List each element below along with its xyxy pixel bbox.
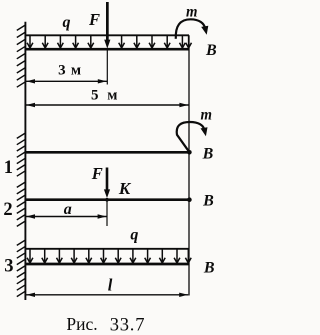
svg-text:2: 2 bbox=[3, 200, 12, 220]
svg-text:Рис.: Рис. bbox=[66, 314, 97, 334]
moment arc top bbox=[176, 19, 205, 39]
svg-text:m: m bbox=[200, 107, 212, 124]
beam 3 bbox=[25, 263, 189, 266]
svg-text:3 м: 3 м bbox=[58, 63, 82, 79]
right extension line bbox=[188, 35, 190, 295]
beam 1 end dot bbox=[187, 150, 192, 155]
wall line left bbox=[24, 22, 26, 300]
wall hatching support 2 bbox=[17, 182, 26, 226]
distributed load arrows top bbox=[27, 36, 191, 48]
svg-text:3: 3 bbox=[4, 257, 13, 277]
extension line under F bbox=[106, 50, 108, 85]
svg-text:K: K bbox=[118, 179, 132, 198]
svg-text:m: m bbox=[186, 4, 198, 21]
beam 1 bbox=[25, 151, 189, 154]
svg-text:F: F bbox=[88, 10, 100, 29]
wall hatching support 1 bbox=[17, 133, 26, 176]
svg-text:B: B bbox=[205, 42, 217, 59]
moment arc beam1 bbox=[177, 122, 205, 152]
distributed load line q beam3 bbox=[25, 248, 189, 250]
top beam bbox=[25, 48, 189, 51]
beam 2 end dot bbox=[187, 197, 192, 202]
dimension 5 m bbox=[26, 103, 189, 107]
svg-text:F: F bbox=[91, 164, 103, 183]
svg-text:l: l bbox=[108, 276, 113, 295]
svg-text:1: 1 bbox=[4, 158, 13, 178]
wall hatching support 3 bbox=[17, 240, 26, 297]
svg-text:B: B bbox=[203, 260, 215, 277]
svg-text:B: B bbox=[202, 193, 214, 210]
dimension 3 m bbox=[26, 79, 107, 83]
svg-text:a: a bbox=[64, 201, 72, 218]
force F top arrow bbox=[104, 2, 110, 49]
beam 2 junction dot bbox=[105, 198, 109, 202]
svg-text:5 м: 5 м bbox=[91, 88, 120, 104]
dimension l bbox=[26, 293, 188, 297]
beam 2 bbox=[25, 198, 189, 201]
svg-text:B: B bbox=[202, 146, 214, 163]
distributed load line q top bbox=[25, 34, 189, 36]
force F beam2 arrow bbox=[104, 168, 110, 199]
wall hatching top support bbox=[17, 25, 26, 87]
svg-text:q: q bbox=[130, 227, 138, 244]
dimension a bbox=[26, 214, 107, 218]
svg-text:33.7: 33.7 bbox=[110, 316, 146, 335]
distributed load arrows beam3 bbox=[27, 250, 191, 264]
svg-text:q: q bbox=[63, 14, 71, 31]
extension line under F beam2 bbox=[106, 200, 108, 226]
